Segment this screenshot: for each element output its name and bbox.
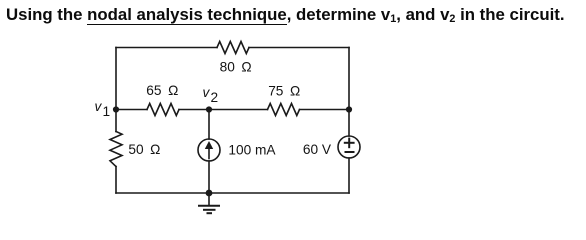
wire middle rail: v2 node to 75-ohm resistor <box>209 109 268 111</box>
voltage source 60 V (circle) <box>338 136 360 158</box>
svg-text:80 Ω: 80 Ω <box>220 60 252 75</box>
svg-text:2: 2 <box>211 90 219 105</box>
wire v2 branch upper <box>208 110 210 140</box>
wire middle rail: 75-ohm to right node <box>300 109 350 111</box>
node right middle (junction dot) <box>346 106 352 112</box>
svg-text:v: v <box>203 85 211 100</box>
wire left vertical: v1 node down to 50-ohm resistor <box>115 110 117 132</box>
svg-text:100 mA: 100 mA <box>228 143 276 158</box>
wire right vertical: node to 60V source <box>348 110 350 137</box>
wire top rail right segment <box>249 47 349 49</box>
wire top-left vertical <box>115 48 117 110</box>
wire v2 branch lower <box>208 161 210 193</box>
svg-text:1: 1 <box>103 104 111 119</box>
voltage source minus sign <box>346 151 354 153</box>
node bottom / ground junction dot <box>206 190 213 197</box>
wire bottom rail <box>116 192 349 194</box>
wire left vertical: 50-ohm to bottom rail <box>115 167 117 194</box>
resistor 65 ohm (middle rail left) <box>147 104 179 116</box>
voltage source plus sign <box>345 142 354 144</box>
node v2 (junction dot) <box>206 106 212 112</box>
svg-text:65 Ω: 65 Ω <box>146 83 178 98</box>
wire top rail left segment <box>116 47 217 49</box>
svg-text:75 Ω: 75 Ω <box>268 84 300 99</box>
resistor 75 ohm (middle rail right) <box>268 104 300 116</box>
svg-text:50 Ω: 50 Ω <box>128 142 160 157</box>
resistor 80 ohm (top rail) <box>217 42 249 54</box>
node v1 (junction dot) <box>113 106 119 112</box>
current source 100 mA (circle) <box>198 139 220 161</box>
svg-text:60 V: 60 V <box>303 142 332 157</box>
wire right vertical: 60V source to bottom rail <box>348 158 350 193</box>
ground symbol <box>208 193 210 206</box>
current source arrow <box>208 147 210 159</box>
resistor 50 ohm (left branch, vertical) <box>110 132 122 167</box>
wire middle rail: 65-ohm to v2 node <box>179 109 209 111</box>
wire right vertical upper <box>348 48 350 110</box>
svg-text:v: v <box>95 99 103 114</box>
wire middle rail: v1 node to 65-ohm resistor <box>116 109 147 111</box>
